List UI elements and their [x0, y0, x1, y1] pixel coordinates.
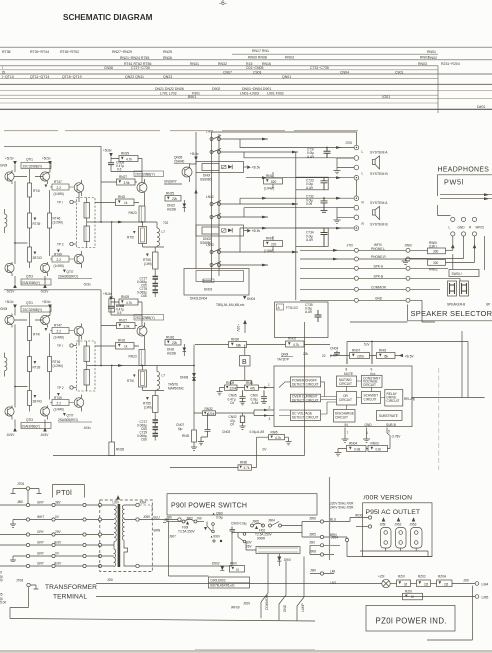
svg-text:T2.5A 250V: T2.5A 250V [178, 530, 196, 534]
svg-text:A.A9: A.A9 [306, 238, 313, 242]
terminal row 18.6V [0, 541, 102, 547]
indicator rows [96, 575, 488, 588]
svg-text:WHT: WHT [37, 515, 44, 519]
relay switching center block [163, 130, 298, 302]
svg-text:D90l,D902: D90l,D902 [211, 579, 226, 583]
resistor RT55 1W [143, 247, 158, 276]
wire relay bus verticals [196, 132, 219, 282]
resistor RN21 1k [95, 195, 139, 206]
svg-text:HS2Bl: HS2Bl [167, 352, 176, 356]
capacitor C731 [307, 147, 331, 159]
wire vertical bus [295, 152, 297, 300]
svg-text:RN03: RN03 [285, 56, 294, 60]
svg-text:47k: 47k [250, 386, 256, 390]
svg-text:J20l: J20l [107, 578, 113, 582]
svg-text:9: 9 [371, 368, 373, 372]
svg-text:GND: GND [283, 604, 287, 612]
svg-text:GRY: GRY [37, 541, 45, 545]
svg-text:GRY: GRY [37, 552, 45, 556]
svg-text:QN22 QN11: QN22 QN11 [125, 75, 144, 79]
svg-text:SYSTEM A: SYSTEM A [370, 151, 388, 155]
capacitor CN02 47u [229, 413, 246, 429]
resistor RN17 220 [264, 236, 283, 253]
resistor RN11 820 [264, 172, 283, 191]
svg-text:SS6980: SS6980 [200, 178, 212, 182]
svg-text:▲S90l: ▲S90l [210, 535, 220, 539]
relay coil DN02 SS6980 [196, 225, 261, 245]
label DN03,DN04 [190, 296, 255, 301]
AC outlet heading [364, 495, 413, 502]
terminal row 18.6V b [0, 562, 102, 568]
svg-text:BLU: BLU [330, 517, 337, 521]
svg-text:220k: 220k [230, 386, 237, 390]
svg-text:RN32: RN32 [205, 407, 213, 411]
svg-text:RZ0l: RZ0l [398, 575, 405, 579]
diode DN21 [167, 344, 186, 356]
svg-text:1k: 1k [124, 201, 128, 205]
svg-text:SUBSTRATE: SUBSTRATE [379, 414, 398, 418]
phone row COMMON [300, 285, 440, 291]
svg-text:LN03: LN03 [206, 243, 214, 247]
svg-text:5: 5 [388, 430, 390, 434]
resistor RN16 4.7k [170, 460, 257, 470]
svg-text:RT45~RT52: RT45~RT52 [60, 50, 79, 54]
svg-text:RN26: RN26 [163, 56, 172, 60]
svg-text:COMMON: COMMON [265, 594, 269, 610]
wire selector to relay drive [350, 321, 435, 323]
svg-text:RN31: RN31 [190, 62, 199, 66]
svg-text:0.8l: 0.8l [376, 447, 381, 451]
transistor QT16 [74, 180, 84, 196]
svg-text:RN09: RN09 [226, 381, 234, 385]
svg-text:J906: J906 [309, 517, 316, 521]
svg-text:RZ0A: RZ0A [438, 575, 447, 579]
svg-text:RN25: RN25 [163, 50, 172, 54]
transistor QT18 (left lower) [5, 262, 14, 276]
capacitor CN01 [251, 390, 268, 405]
resistor RN26 22k [165, 336, 181, 346]
relay drive circuit [385, 390, 403, 407]
svg-text:J954: J954 [331, 536, 338, 540]
svg-text:LN02: LN02 [206, 195, 214, 199]
svg-text:29V: 29V [55, 530, 62, 534]
svg-text:A.A9: A.A9 [306, 186, 313, 190]
transistor QT13 [40, 262, 49, 276]
transformer secondary winding [122, 505, 135, 566]
svg-text:LAMP: LAMP [301, 603, 305, 612]
power -51.5V [6, 276, 49, 294]
phone row GND [300, 296, 422, 322]
svg-text:I~QT10: I~QT10 [2, 75, 14, 79]
svg-text:22l: 22l [444, 582, 449, 586]
switch box P901 [167, 494, 317, 515]
dashed select box [77, 198, 96, 248]
svg-text:D#01: D#01 [477, 105, 485, 109]
svg-text:JT08: JT08 [16, 579, 23, 583]
transistor QT11 [40, 172, 50, 184]
svg-text:SSl7B,A6X45,etc: SSl7B,A6X45,etc [210, 583, 235, 587]
svg-text:C#: C# [230, 423, 234, 427]
svg-text:TB5(-NL,MU,M5,etc: TB5(-NL,MU,M5,etc [216, 303, 245, 307]
svg-text:RN27~RN29: RN27~RN29 [112, 50, 132, 54]
svg-text:C900 0.0lµ: C900 0.0lµ [231, 522, 247, 526]
resistor RT47 2.2 [45, 180, 75, 196]
relay LN02 [206, 195, 298, 219]
wire row R3 in [240, 228, 354, 252]
svg-text:240V 50Hz /05R: 240V 50Hz /05R [330, 506, 354, 510]
terminal row 0V b [10, 552, 102, 562]
transformer primary winding upper [102, 505, 117, 545]
svg-text:RZ02: RZ02 [418, 575, 426, 579]
ground for RN04 [335, 449, 347, 456]
svg-text:(1Wl): (1Wl) [144, 262, 152, 266]
resistor RN03 0.81 [366, 435, 390, 452]
connector J705 [212, 132, 359, 150]
wire feedback L [53, 322, 305, 456]
node B box [240, 356, 251, 367]
svg-text:330: 330 [433, 250, 439, 254]
svg-text:CIRCUIT: CIRCUIT [335, 415, 348, 419]
connector J708 [10, 579, 39, 619]
voltage labels [246, 541, 253, 549]
headphone jack PW51 [449, 217, 485, 236]
svg-text:SP: SP [486, 303, 490, 307]
svg-text:CN07: CN07 [223, 70, 232, 74]
svg-text:CN04: CN04 [330, 347, 338, 351]
svg-text:RN17 RN1: RN17 RN1 [252, 49, 269, 53]
svg-text:RN27: RN27 [119, 175, 127, 179]
svg-text:(1/4Wl): (1/4Wl) [54, 264, 64, 268]
power +51.5v right [103, 149, 113, 163]
svg-text:QT15~QT19: QT15~QT19 [62, 75, 82, 79]
svg-text:RN32: RN32 [218, 62, 227, 66]
svg-text:RZ0l: RZ0l [405, 590, 412, 594]
svg-text:J20l: J20l [463, 579, 469, 583]
speaker icon B [373, 206, 380, 219]
svg-text:5.00: 5.00 [0, 601, 6, 605]
transistor QT11 label [21, 158, 51, 169]
svg-text:RT38: RT38 [2, 50, 11, 54]
svg-text:FT0l-2/2: FT0l-2/2 [286, 306, 298, 310]
svg-text:DN04: DN04 [247, 297, 255, 301]
svg-text:2B743: 2B743 [33, 256, 42, 260]
svg-text:RT5l: RT5l [127, 236, 134, 240]
svg-text:+5l.5V: +5l.5V [405, 355, 415, 359]
svg-text:GND: GND [365, 423, 373, 427]
parts location table text [2, 49, 485, 109]
svg-text:l5k: l5k [384, 354, 388, 358]
svg-text:L7: L7 [162, 230, 166, 234]
connector J059 BLU out [136, 515, 181, 521]
wire P901 internals vertical [169, 522, 209, 577]
outlet wiring [331, 536, 432, 557]
svg-text:GND: GND [375, 296, 383, 300]
switch S901 [197, 512, 223, 543]
indicator row 2 [96, 590, 488, 600]
capacitor CN05 [228, 390, 246, 405]
relay coil DN03 [184, 269, 249, 296]
resistor RT43 [28, 228, 42, 268]
svg-text:220: 220 [271, 243, 277, 247]
schmidt circuit [362, 392, 381, 404]
capacitor CN04 [303, 347, 340, 358]
long bottom wire WF09 [10, 606, 315, 622]
terminal PT01 label [53, 485, 85, 498]
svg-text:J905: J905 [252, 519, 259, 523]
resistor RN07 220k [330, 349, 376, 359]
wire jog LN01 row1 [240, 139, 354, 148]
svg-text:4.7k: 4.7k [244, 466, 250, 470]
svg-text:BRN: BRN [154, 528, 161, 532]
BRN wire [154, 528, 303, 538]
relay coil DN01 SS6980 [196, 162, 261, 182]
fuse F901 [166, 517, 202, 534]
svg-text:B: B [242, 359, 247, 366]
svg-text:TP l: TP l [57, 201, 63, 205]
resistor RN23 [129, 206, 146, 222]
svg-text:RN26: RN26 [166, 336, 174, 340]
wire ch2 output to bus [157, 365, 194, 367]
svg-text:6: 6 [413, 398, 415, 402]
svg-text:SPEAKER-B: SPEAKER-B [447, 303, 465, 307]
svg-text:L701 L702: L701 L702 [160, 92, 177, 96]
svg-text:GRY: GRY [37, 530, 45, 534]
svg-text:2SC3298B(Y): 2SC3298B(Y) [135, 173, 155, 177]
power +51.5v feed 2 [42, 157, 52, 173]
svg-text:CIRCUIT: CIRCUIT [387, 399, 400, 403]
svg-text:SPK-A: SPK-A [374, 264, 384, 268]
svg-text:7: 7 [347, 431, 349, 435]
svg-text:C727~C730: C727~C730 [131, 66, 150, 70]
terminal row 38V [0, 501, 102, 507]
svg-text:0.0lµ A.A9: 0.0lµ A.A9 [250, 430, 265, 434]
phone row SPK-B [300, 274, 460, 281]
wire jog LN01 row2 [244, 152, 354, 158]
svg-text:J9l0: J9l0 [310, 569, 316, 573]
wire top rail [4, 145, 101, 147]
svg-text:JT0l: JT0l [347, 244, 353, 248]
svg-text:RN29: RN29 [121, 152, 129, 156]
wire row R2 in [244, 208, 354, 217]
svg-text:B901: B901 [188, 95, 196, 99]
svg-text:QN01: QN01 [282, 75, 291, 79]
svg-text:QN0l: QN0l [281, 353, 289, 357]
ground stub L [334, 158, 355, 174]
svg-text:HEADPHONES: HEADPHONES [438, 167, 490, 174]
IC pins top [347, 356, 372, 364]
wire [111, 171, 142, 173]
wire RN09/RN10 tops [231, 366, 252, 385]
svg-text:l2l: l2l [404, 582, 407, 586]
svg-text:820: 820 [271, 180, 277, 184]
phone row PHONE-R [300, 255, 475, 272]
svg-text:/00R VERSION: /00R VERSION [364, 495, 413, 502]
svg-text:RN03: RN03 [418, 62, 427, 66]
discharge circuit [334, 410, 356, 423]
protection circuit block [53, 302, 468, 470]
resistor RT52 [127, 222, 147, 247]
connector bottom tap [136, 533, 232, 568]
svg-text:DN21 DN22 DN06: DN21 DN22 DN06 [155, 87, 184, 91]
or circuit [337, 392, 357, 406]
svg-text:QTl3: QTl3 [26, 275, 33, 279]
outlet sockets J951 J952 J953 [380, 517, 423, 551]
svg-text:J95l: J95l [380, 523, 386, 527]
svg-text:SYSTEM B: SYSTEM B [370, 223, 388, 227]
svg-text:CN04: CN04 [340, 70, 349, 74]
svg-text:SUB 5l: SUB 5l [386, 423, 396, 427]
svg-text:22k: 22k [303, 352, 309, 356]
wire pins 2 3 [254, 406, 274, 422]
svg-text:RN09 RN08: RN09 RN08 [248, 56, 267, 60]
svg-text:A.A#: A.A# [252, 401, 259, 405]
svg-text:QTl7: QTl7 [67, 270, 74, 274]
svg-text:C731~C735: C731~C735 [310, 66, 329, 70]
svg-text:702: 702 [163, 221, 169, 225]
svg-text:+5l.5v: +5l.5v [42, 157, 51, 161]
wire B node link [244, 345, 246, 356]
wire output joint [143, 246, 165, 248]
svg-text:SCHEMATIC DIAGRAM: SCHEMATIC DIAGRAM [63, 13, 153, 22]
svg-text:RT4l: RT4l [33, 189, 40, 193]
connector circles L group [354, 156, 359, 180]
svg-text:LM2: LM2 [330, 581, 336, 585]
svg-text:GRY: GRY [37, 501, 45, 505]
resistor RT41 [28, 169, 40, 213]
svg-text:22k: 22k [172, 197, 178, 201]
wire jack leads [402, 236, 485, 270]
svg-text:TP 2: TP 2 [57, 243, 64, 247]
svg-text:C66: C66 [141, 294, 147, 298]
svg-text:BLU: BLU [154, 515, 161, 519]
svg-text:QT11~QT14: QT11~QT14 [30, 75, 49, 79]
svg-text:0.09: 0.09 [306, 202, 312, 206]
svg-text:J905: J905 [309, 533, 316, 537]
resistor RN09 220k [217, 381, 238, 395]
capacitor CN08 [108, 161, 124, 172]
svg-text:MUTE: MUTE [344, 372, 353, 376]
svg-text:DN01~DN04 D901: DN01~DN04 D901 [242, 87, 271, 91]
svg-text:J9l2: J9l2 [309, 541, 315, 545]
svg-text:JW0l: JW0l [405, 244, 412, 248]
resistor RT49 2.2 [50, 250, 74, 269]
svg-text:L: L [449, 225, 451, 229]
svg-text:RT39: RT39 [33, 222, 41, 226]
resistor RN35 tail [109, 221, 124, 312]
svg-text:RT47: RT47 [54, 180, 62, 184]
fuse F902 [251, 519, 273, 540]
svg-text:WF02: WF02 [476, 225, 485, 229]
svg-text:SYSTEM A: SYSTEM A [370, 201, 388, 205]
svg-text:SWDl-l: SWDl-l [452, 272, 462, 276]
svg-text:RN01: RN01 [427, 50, 436, 54]
svg-text:J05A: J05A [139, 501, 147, 505]
svg-text:CIRCUIT: CIRCUIT [339, 398, 352, 402]
svg-text:2: 2 [269, 406, 271, 410]
terminal row 29V [0, 530, 102, 536]
wire mid rail with arrow [87, 221, 140, 224]
svg-text:QTl1: QTl1 [26, 158, 33, 162]
snubber box C733 [296, 177, 328, 190]
transistor QN21 [134, 171, 164, 206]
IC pins bottom [342, 428, 402, 443]
svg-text:CN03: CN03 [222, 430, 230, 434]
wire base link [14, 176, 43, 178]
svg-text:2SAl306B(Y): 2SAl306B(Y) [22, 281, 40, 285]
svg-text:J952: J952 [395, 523, 402, 527]
connector W001 [334, 513, 372, 528]
connector J706 [11, 482, 42, 504]
svg-text:CN06: CN06 [104, 66, 113, 70]
svg-text:DETECT CIRCUIT: DETECT CIRCUIT [292, 382, 319, 386]
svg-text:L901 F902: L901 F902 [267, 92, 284, 96]
svg-text:DN03,DN04: DN03,DN04 [190, 297, 207, 301]
connector J05A [136, 501, 152, 520]
svg-text:RN07: RN07 [352, 349, 360, 353]
svg-text:RN02: RN02 [288, 337, 296, 341]
svg-text:5.lV: 5.lV [364, 343, 370, 347]
svg-text:DN03: DN03 [204, 288, 212, 292]
transformer terminal heading [45, 584, 97, 601]
svg-text:R90l: R90l [230, 562, 237, 566]
muting circuit [337, 376, 357, 387]
resistor RN04 0.08 [347, 442, 367, 452]
resistor RN27 3.9k [101, 175, 137, 185]
power +22V [236, 320, 247, 333]
svg-text:8: 8 [346, 368, 348, 372]
detect box OVER CURRENT [290, 394, 336, 402]
outlet box P951 [363, 503, 433, 557]
net 5.1V [347, 341, 468, 398]
wire row R in [240, 198, 354, 204]
svg-text:L: L [362, 172, 364, 176]
svg-text:0l: 0l [411, 595, 414, 599]
svg-text:22k: 22k [172, 341, 178, 345]
wire left bus [100, 146, 102, 222]
svg-text:LN01~LN03: LN01~LN03 [240, 92, 259, 96]
crease left [329, 477, 331, 560]
label R SYSTEM A [362, 201, 389, 206]
svg-text:2SA9l0: 2SA9l0 [174, 160, 185, 164]
svg-text:CIRCUIT: CIRCUIT [339, 382, 352, 386]
svg-text:2.2: 2.2 [57, 186, 62, 190]
svg-text:J953: J953 [410, 523, 417, 527]
svg-text:220k: 220k [208, 412, 215, 416]
resistor RN30 68k [195, 338, 264, 348]
svg-text:RN2l: RN2l [118, 195, 125, 199]
connector J904 [268, 518, 302, 527]
svg-text:(1/2Wl): (1/2Wl) [53, 221, 63, 225]
capacitor CN03 [198, 413, 264, 445]
capacitor C732 [306, 195, 328, 213]
transformer primary winding lower [102, 545, 116, 567]
page bottom edge shadow [0, 650, 492, 652]
svg-text:22l: 22l [424, 582, 429, 586]
svg-text:RT39~RT44: RT39~RT44 [30, 50, 49, 54]
svg-text:TA73l7P: TA73l7P [277, 358, 289, 362]
svg-text:38V: 38V [55, 501, 62, 505]
svg-text:RN25: RN25 [166, 192, 174, 196]
svg-text:+5l.5v: +5l.5v [5, 157, 14, 161]
transistor QN05 [174, 156, 192, 183]
tiny left texts [0, 571, 6, 605]
svg-text:+5l.8v: +5l.8v [103, 149, 112, 153]
power +51.5v feed QT11 [5, 157, 17, 173]
svg-text:220k: 220k [357, 354, 364, 358]
svg-text:D902: D902 [212, 562, 220, 566]
svg-text:J904: J904 [268, 518, 275, 522]
svg-text:R231~R204: R231~R204 [441, 62, 460, 66]
